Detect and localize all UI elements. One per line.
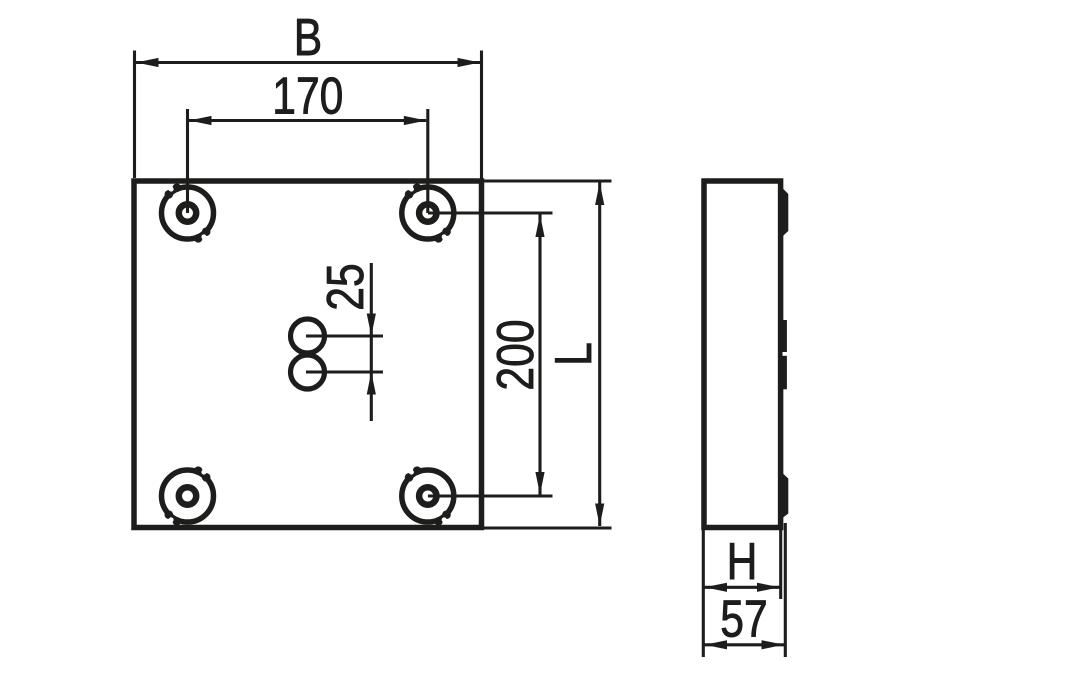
arrow 170 right xyxy=(404,116,427,125)
arrow L top xyxy=(595,183,604,206)
extension line right xyxy=(480,51,483,180)
svg-text:170: 170 xyxy=(272,67,343,125)
arrow L bottom xyxy=(595,504,604,527)
arrow B left xyxy=(136,58,159,67)
hole bottom-right xyxy=(402,466,454,525)
arrow H right xyxy=(757,583,780,592)
leader line upper circle xyxy=(306,334,383,337)
arrow 25 upper xyxy=(367,314,376,337)
extension line left through hole xyxy=(186,109,189,213)
dimension 200 xyxy=(428,213,553,496)
side view boss bottom xyxy=(779,470,789,522)
dimension line xyxy=(538,215,541,495)
extension line left xyxy=(702,530,705,657)
extension line bottom xyxy=(481,526,612,529)
side view boss middle xyxy=(780,320,787,389)
hole top-left xyxy=(162,183,214,242)
leader line lower circle xyxy=(306,370,383,373)
hole bottom-left xyxy=(162,466,214,525)
extension line bottom from hole centre xyxy=(428,494,553,497)
plate outline (front view) xyxy=(134,181,482,528)
arrow 57 right xyxy=(762,640,785,649)
extension line left xyxy=(133,51,136,179)
svg-text:B: B xyxy=(294,9,322,67)
dimension line xyxy=(189,119,426,122)
extension line top xyxy=(484,179,612,182)
dimension 57 xyxy=(705,523,786,657)
dimension H xyxy=(703,530,780,657)
arrow 25 lower xyxy=(367,372,376,395)
side view boss top xyxy=(779,184,789,240)
dimension 170 xyxy=(188,109,428,213)
arrow H left xyxy=(705,583,728,592)
extension line top from hole centre xyxy=(428,211,553,214)
dimension 25 xyxy=(306,263,383,421)
dimension line xyxy=(705,643,785,646)
dimension line xyxy=(136,61,480,64)
centre hole upper xyxy=(291,319,325,353)
side view boss middle notch xyxy=(783,352,789,356)
svg-text:25: 25 xyxy=(317,263,375,310)
dimension B xyxy=(135,51,482,180)
dimension line xyxy=(598,183,601,527)
extension line right outer xyxy=(784,523,787,657)
dimension line xyxy=(705,586,780,589)
arrow 200 bottom xyxy=(535,472,544,495)
extension line right xyxy=(779,530,782,599)
svg-text:57: 57 xyxy=(720,591,767,649)
side view outline xyxy=(704,181,781,528)
extension line right through hole xyxy=(426,109,429,213)
arrow 57 left xyxy=(705,640,728,649)
arrow 170 left xyxy=(189,116,212,125)
arrow 200 top xyxy=(535,215,544,238)
dimension L xyxy=(481,181,612,528)
svg-text:L: L xyxy=(545,342,603,366)
svg-text:200: 200 xyxy=(487,319,545,390)
arrow B right xyxy=(458,58,481,67)
svg-text:H: H xyxy=(727,533,758,591)
hole top-right xyxy=(402,183,454,242)
dimension line xyxy=(370,263,373,421)
centre hole lower xyxy=(291,355,325,389)
